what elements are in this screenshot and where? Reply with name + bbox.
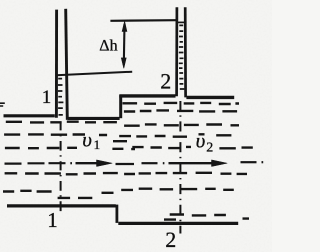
svg-text:υ: υ [82,128,92,152]
piezometer tube 2, right wall [184,7,187,97]
liquid dashes row y103 (narrow... right section only) [123,103,240,104]
svg-text:1: 1 [42,87,52,108]
liquid dashes row y215 (right section) [164,215,249,220]
svg-text:1: 1 [94,137,101,152]
upper datum line (tube 2 level) [110,19,175,22]
pipe axis (dash-dot centre line) [5,162,264,164]
liquid dashes row y135 [4,134,231,136]
pipe step, bottom [116,205,119,223]
svg-text:2: 2 [206,140,213,155]
section line 1 (dash-dot through section 1) [60,122,62,212]
tube 2 water level (meniscus) [177,21,185,23]
delta-h double arrow [121,21,127,68]
svg-text:υ: υ [196,129,206,153]
liquid dashes row y123 [6,122,239,126]
piezometer tube 2, left wall [175,7,178,96]
piezometer tube 1, right wall [66,9,68,120]
velocity arrow v1 [76,160,113,167]
tube 1 liquid hatching [58,79,64,115]
liquid dashes row y111 (right section) [124,110,237,111]
svg-text:Δh: Δh [99,38,117,55]
pipe top wall, right section (right of tube 2) [186,96,234,99]
svg-text:2: 2 [165,227,176,252]
pipe bottom wall, left section [7,204,116,207]
liquid dashes row y190 (wavy) [3,189,234,198]
liquid dashes row y141 fragment (below step) [113,140,127,142]
svg-text:1: 1 [47,208,58,232]
tube 2 liquid hatching [179,25,185,89]
liquid dashes row y148 [5,147,253,149]
section line 2 (dash-dot through section 2) [179,101,181,234]
velocity arrow v2 [169,160,228,167]
pipe top wall, left section (left of tube 1) [4,114,55,117]
pipe top wall, left section (right of tube 1) [68,117,120,120]
tube 1 water level / lower datum line [56,72,132,76]
svg-text:2: 2 [160,68,171,93]
liquid dashes row y174 [5,173,247,175]
pipe top wall, right section (left of tube 2) [119,94,175,97]
pipe step, top (contraction shoulder) [119,95,122,118]
piezometer tube 1, left wall [55,10,58,118]
pipe bottom wall, right section [118,222,238,225]
stray wall mark at left edge [0,103,5,106]
